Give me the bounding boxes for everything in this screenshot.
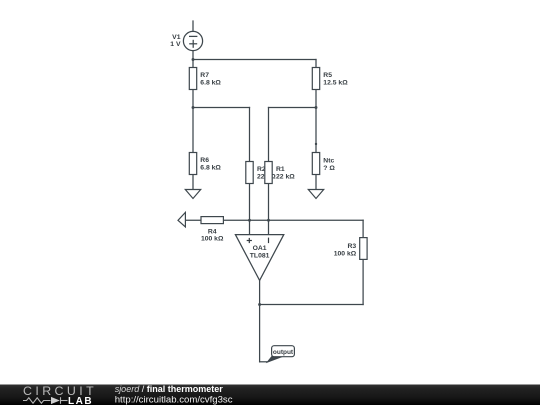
svg-text:LAB: LAB	[68, 396, 93, 405]
svg-text:100 kΩ: 100 kΩ	[334, 251, 357, 258]
svg-text:22 kΩ: 22 kΩ	[276, 174, 295, 181]
svg-text:6.8 kΩ: 6.8 kΩ	[200, 80, 221, 87]
svg-text:R1: R1	[276, 166, 285, 173]
svg-text:1 V: 1 V	[170, 41, 181, 48]
svg-text:R3: R3	[347, 243, 356, 250]
svg-text:sjoerd / final thermometer: sjoerd / final thermometer	[115, 384, 224, 394]
svg-text:R6: R6	[200, 157, 209, 164]
svg-text:output: output	[273, 349, 294, 356]
svg-text:V1: V1	[172, 34, 181, 41]
svg-text:6.8 kΩ: 6.8 kΩ	[200, 165, 221, 172]
svg-text:R5: R5	[323, 72, 332, 79]
svg-text:http://circuitlab.com/cvfg3sc: http://circuitlab.com/cvfg3sc	[115, 394, 233, 405]
svg-text:? Ω: ? Ω	[323, 165, 335, 172]
svg-text:12.5 kΩ: 12.5 kΩ	[323, 80, 348, 87]
svg-text:R7: R7	[200, 72, 209, 79]
svg-text:Ntc: Ntc	[323, 158, 334, 165]
svg-text:OA1: OA1	[253, 245, 267, 252]
svg-text:TL081: TL081	[250, 253, 270, 260]
svg-text:100 kΩ: 100 kΩ	[201, 235, 224, 242]
